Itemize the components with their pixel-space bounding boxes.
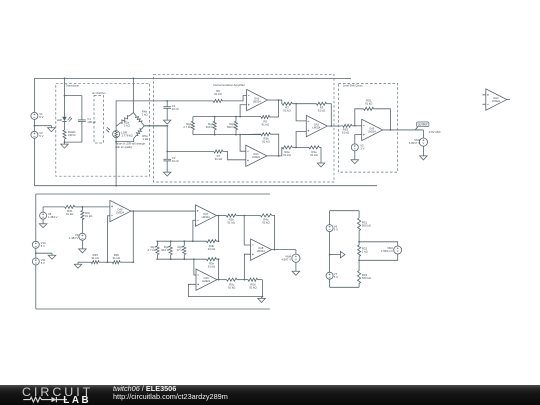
svg-text:91 kΩ: 91 kΩ	[318, 109, 325, 113]
svg-text:500 kΩ: 500 kΩ	[362, 276, 371, 280]
resistor Rg1	[183, 117, 194, 135]
svg-text:1 kΩ: 1 kΩ	[362, 250, 368, 254]
wire sense lower drop	[144, 125, 168, 152]
wire LED branch down	[64, 78, 66, 117]
svg-text:91 kΩ: 91 kΩ	[310, 153, 317, 157]
ground R3b	[317, 161, 325, 167]
svg-text:5 V: 5 V	[334, 275, 338, 279]
wire left supply edge	[33, 78, 35, 185]
wire bottom circuit bottom rail	[36, 308, 270, 310]
photoresistor LDR	[106, 126, 133, 137]
svg-text:91 kΩ: 91 kΩ	[66, 212, 73, 216]
wire bridge supply drop	[133, 78, 135, 113]
svg-text:LM324: LM324	[492, 99, 500, 103]
svg-text:5 V: 5 V	[334, 227, 338, 231]
svg-text:91 kΩ: 91 kΩ	[262, 220, 269, 224]
wire junction to OA6	[82, 206, 110, 208]
svg-text:V: V	[397, 249, 399, 253]
node R5c R5d junction	[244, 279, 246, 281]
svg-text:Instrumentation Amplifier: Instrumentation Amplifier	[213, 83, 245, 87]
op-amp OA3	[483, 89, 511, 110]
svg-text:LED: LED	[57, 118, 62, 122]
voltage source V5	[351, 144, 364, 151]
resistor Rg1b	[148, 241, 159, 259]
wire top supply rail	[34, 77, 351, 79]
resistor R33	[358, 260, 371, 287]
wire OA4 output	[267, 155, 280, 157]
resistor R3b in	[65, 205, 83, 216]
resistor R2b lower	[282, 146, 296, 157]
node R35 R36 junction	[107, 261, 109, 263]
wire VM4 to ground	[295, 262, 297, 269]
wire Rg top rail	[193, 116, 261, 118]
wire OA9 inv rise	[194, 259, 196, 275]
ground VM1	[420, 154, 428, 160]
voltmeter VM4	[281, 254, 300, 262]
wire RLED to ground node	[64, 139, 66, 143]
resistor R2a bridge arm	[116, 113, 133, 128]
svg-text:91 kΩ: 91 kΩ	[262, 140, 269, 144]
resistor Rg3b	[177, 241, 186, 259]
op-amp OA1	[247, 89, 268, 110]
capacitor C1f filter	[163, 100, 179, 118]
dashed box Instrumentation Amplifier	[153, 74, 334, 182]
CircuitLab logo	[22, 386, 94, 405]
wire V8 up	[43, 207, 65, 212]
voltage source V9	[69, 233, 86, 240]
wire OA7 feedback drop	[218, 216, 220, 242]
wire junction to OA2 noninv	[296, 132, 306, 148]
svg-text:LM324: LM324	[116, 210, 124, 214]
svg-text:91 kΩ: 91 kΩ	[262, 122, 269, 126]
op-amp OA5	[362, 119, 383, 140]
wire bridge bottom link	[116, 139, 134, 142]
resistor R35	[78, 253, 108, 264]
svg-text:91 kΩ: 91 kΩ	[249, 285, 256, 289]
LED D1	[57, 117, 72, 122]
wire V9 to ground	[81, 240, 83, 247]
resistor R2	[282, 102, 296, 112]
svg-text:91 kΩ: 91 kΩ	[228, 220, 235, 224]
dashed box Transducer	[56, 83, 150, 176]
wire bottom circuit left edge	[35, 194, 37, 309]
wire VM2 bottom tap	[359, 254, 398, 260]
node R3b junction	[82, 206, 84, 208]
resistor R5d	[244, 278, 262, 289]
wire Rgb top rail	[156, 240, 206, 242]
ground supply mid	[48, 126, 56, 132]
ground C2f	[163, 171, 171, 177]
wire bottom circuit top rail	[36, 193, 270, 195]
op-amp OA7	[196, 205, 217, 226]
wire OA1 feedback drop	[278, 100, 280, 117]
voltmeter VM2	[381, 246, 402, 254]
wire V1-V2 mid tap	[34, 125, 52, 127]
svg-text:2.7 kΩ: 2.7 kΩ	[183, 125, 191, 129]
svg-text:Air Chamber: Air Chamber	[92, 92, 106, 95]
capacitor C2f filter	[163, 151, 179, 171]
wire R5d to ground junction	[262, 280, 264, 298]
resistor Rg3	[227, 117, 237, 135]
wire bottom return rail	[34, 185, 377, 187]
svg-text:1.569 mV: 1.569 mV	[381, 249, 393, 253]
svg-text:100 µF: 100 µF	[87, 120, 96, 124]
svg-text:91 kΩ: 91 kΩ	[228, 285, 235, 289]
flag OUTPUT	[415, 122, 429, 130]
svg-text:91 kΩ: 91 kΩ	[92, 256, 99, 260]
wire bridge right sense	[144, 125, 167, 127]
dashed box Level Shift Circuit	[339, 84, 398, 173]
svg-text:91 kΩ: 91 kΩ	[215, 157, 222, 161]
voltage source V11	[32, 258, 46, 265]
svg-text:5 V: 5 V	[41, 261, 45, 265]
svg-text:1.484 V: 1.484 V	[69, 236, 79, 240]
wire OA5 noninv to V5	[355, 135, 362, 144]
ground OA6 divider	[74, 262, 82, 268]
svg-text:with air quality: with air quality	[115, 145, 133, 149]
wire VM1 to ground	[422, 146, 424, 154]
wire divider left edge	[329, 211, 331, 288]
resistor R3	[296, 102, 331, 112]
wire bridge left sense	[116, 101, 167, 126]
wire OA4 inv from Rg rail	[240, 135, 246, 152]
op-amp OA9	[196, 269, 217, 290]
svg-text:LM324: LM324	[202, 279, 210, 283]
wire divider top	[330, 210, 360, 212]
node R2 R3 junction	[295, 103, 297, 105]
resistor R36	[108, 253, 134, 264]
dashed box Air Chamber	[92, 92, 106, 143]
svg-text:V: V	[295, 257, 297, 261]
svg-text:V: V	[423, 141, 425, 145]
wire OA8 noninv rise	[244, 254, 250, 279]
wire OA9 noninv route	[188, 284, 261, 296]
voltmeter VM1	[409, 138, 428, 146]
svg-text:5 V: 5 V	[41, 244, 45, 248]
node R2b R3b junction	[295, 147, 297, 149]
wire LED to resistor	[64, 121, 66, 130]
wire OA1 noninv to Rg rail	[240, 105, 247, 117]
wire Rgb left edge	[156, 241, 157, 259]
note ADC range	[429, 130, 441, 134]
svg-text:Level Shift Circuit: Level Shift Circuit	[343, 84, 363, 87]
wire OA6 inv drop	[108, 216, 110, 262]
wire output down to VM1	[422, 130, 424, 138]
svg-text:910 Ω: 910 Ω	[161, 248, 169, 252]
svg-text:5.0017 V: 5.0017 V	[409, 141, 420, 145]
wire OA4 out jog	[279, 147, 283, 155]
resistor RS2	[341, 124, 362, 134]
resistor R7	[214, 150, 223, 161]
svg-text:27 Ω: 27 Ω	[177, 248, 183, 252]
resistor Rg2b	[161, 241, 172, 259]
svg-text:10 nF: 10 nF	[172, 159, 179, 163]
resistor R4c feedback	[244, 214, 274, 250]
logo wire resistor diode	[23, 397, 51, 402]
wire OA8 output	[272, 249, 296, 251]
wire OA8 out to VM4	[295, 250, 297, 254]
svg-text:10 nF: 10 nF	[172, 107, 179, 111]
ground C1f	[163, 119, 171, 125]
resistor Rg2	[206, 117, 216, 135]
ground V9	[79, 247, 87, 253]
resistor R3c shunt	[81, 207, 93, 233]
resistor R2b	[226, 214, 244, 224]
svg-text:1 kΩ: 1 kΩ	[142, 137, 148, 141]
capacitor C1 bypass	[64, 95, 97, 142]
ground VM4	[292, 269, 300, 275]
resistor R4b feedback	[207, 240, 220, 251]
svg-text:5 V: 5 V	[39, 134, 43, 138]
node R32 R33 junction	[358, 259, 360, 261]
wire Rg bottom rail	[193, 134, 261, 136]
resistor RS1 feedback	[355, 98, 391, 130]
net arrow flag	[330, 251, 345, 257]
ground bottom supply mid	[48, 253, 56, 259]
svg-text:330 Ω: 330 Ω	[68, 133, 76, 137]
ground V8	[39, 222, 47, 228]
node R31 R32 junction	[358, 241, 360, 243]
svg-text:910 Ω: 910 Ω	[206, 125, 214, 129]
svg-text:LM324: LM324	[257, 249, 265, 253]
wire junction to OA2 inv	[296, 104, 306, 121]
svg-text:500 kΩ: 500 kΩ	[362, 223, 371, 227]
svg-text:820 Ω: 820 Ω	[227, 125, 235, 129]
resistor R31	[358, 211, 371, 242]
svg-text:LM324: LM324	[202, 215, 210, 219]
svg-text:2.7 kΩ: 2.7 kΩ	[148, 248, 156, 252]
voltage source V2	[31, 131, 44, 138]
svg-text:0-5V ADC: 0-5V ADC	[429, 130, 441, 134]
resistor R3e feedback	[207, 258, 220, 269]
wire OA2 output	[328, 125, 341, 127]
resistor R4a bridge arm	[133, 110, 147, 126]
note LDR annotation	[115, 142, 145, 150]
resistor R5b feedback	[240, 133, 279, 156]
footer bar	[0, 385, 540, 405]
wire R6 to OA1	[224, 96, 247, 101]
op-amp OA2	[306, 115, 327, 136]
wire sense upper to R6	[167, 100, 213, 102]
resistor R3b lower	[296, 146, 321, 157]
voltage source V7	[326, 272, 338, 279]
svg-text:3 V: 3 V	[360, 147, 364, 151]
svg-text:OUTPUT: OUTPUT	[418, 124, 428, 127]
svg-text:LM324: LM324	[252, 155, 260, 159]
wire R7 to OA4	[223, 152, 246, 160]
svg-text:1.778 kΩ: 1.778 kΩ	[121, 134, 132, 138]
wire OA1 output	[268, 99, 280, 101]
node LED branch tap	[64, 78, 66, 80]
wire OA5 output	[383, 129, 424, 131]
resistor R5 feedback	[261, 115, 279, 126]
svg-text:LAB: LAB	[63, 395, 91, 405]
wire V10-V11 mid tap	[35, 252, 52, 254]
wire R3b to ground	[320, 147, 322, 161]
op-amp OA6	[110, 200, 131, 221]
wire OA9 output	[217, 279, 227, 281]
wire V8 down to ground	[42, 219, 44, 222]
wire OA6 feedback drop	[132, 211, 134, 263]
op-amp OA4	[246, 145, 267, 166]
svg-text:1.484 V: 1.484 V	[48, 215, 58, 219]
voltage source V6	[326, 224, 338, 231]
wire divider bottom	[330, 286, 360, 288]
svg-text:91 kΩ: 91 kΩ	[208, 247, 215, 251]
svg-text:91 kΩ: 91 kΩ	[365, 101, 372, 105]
svg-text:LM324: LM324	[368, 129, 376, 133]
footer text	[113, 385, 228, 400]
wire OA1 out jog	[279, 100, 283, 104]
svg-text:Value of LDR will change: Value of LDR will change	[115, 142, 145, 146]
ground LED branch	[61, 142, 69, 148]
resistor R5a bridge arm	[134, 126, 149, 141]
wire OA9 feedback rise	[218, 259, 220, 279]
wire Rgb bottom rail	[156, 258, 206, 260]
wire V5 to ground	[354, 151, 356, 158]
node R2b junction	[244, 215, 246, 217]
svg-text:4.997 V: 4.997 V	[281, 257, 291, 261]
wire R3 to output node	[330, 104, 332, 126]
wire sense lower to R7	[167, 151, 214, 153]
wire OA7 output	[217, 215, 227, 217]
svg-text:91 kΩ: 91 kΩ	[85, 214, 92, 218]
svg-text:Transducer: Transducer	[66, 83, 80, 87]
resistor R32	[358, 242, 368, 260]
wire OA8 inv rise	[244, 216, 250, 245]
node divider mid	[329, 254, 331, 256]
svg-text:LM324: LM324	[253, 99, 261, 103]
svg-text:91 kΩ: 91 kΩ	[283, 153, 290, 157]
svg-text:LM324: LM324	[312, 125, 320, 129]
resistor R6	[213, 89, 224, 102]
svg-text:91 kΩ: 91 kΩ	[214, 92, 221, 96]
svg-text:91 kΩ: 91 kΩ	[283, 109, 290, 113]
svg-text:1 kΩ: 1 kΩ	[124, 123, 130, 127]
svg-text:1 kΩ: 1 kΩ	[142, 113, 148, 117]
voltage source V1	[31, 112, 44, 119]
wire OA6 output	[131, 210, 196, 212]
resistor R5c	[227, 278, 245, 289]
svg-text:91 kΩ: 91 kΩ	[208, 264, 215, 268]
wire OA7 inv drop	[193, 220, 196, 241]
svg-text:5 V: 5 V	[39, 115, 43, 119]
wire LDR to rail	[115, 138, 117, 187]
ground V5	[351, 158, 359, 164]
svg-text:91 kΩ: 91 kΩ	[113, 256, 120, 260]
op-amp OA8	[251, 239, 272, 260]
resistor RLED	[63, 130, 75, 139]
ground OA9 ref	[258, 297, 266, 303]
svg-text:91 kΩ: 91 kΩ	[342, 130, 349, 134]
voltage source V10	[32, 241, 46, 248]
voltage source V8	[40, 212, 58, 219]
wire VM2 top tap	[359, 242, 398, 246]
